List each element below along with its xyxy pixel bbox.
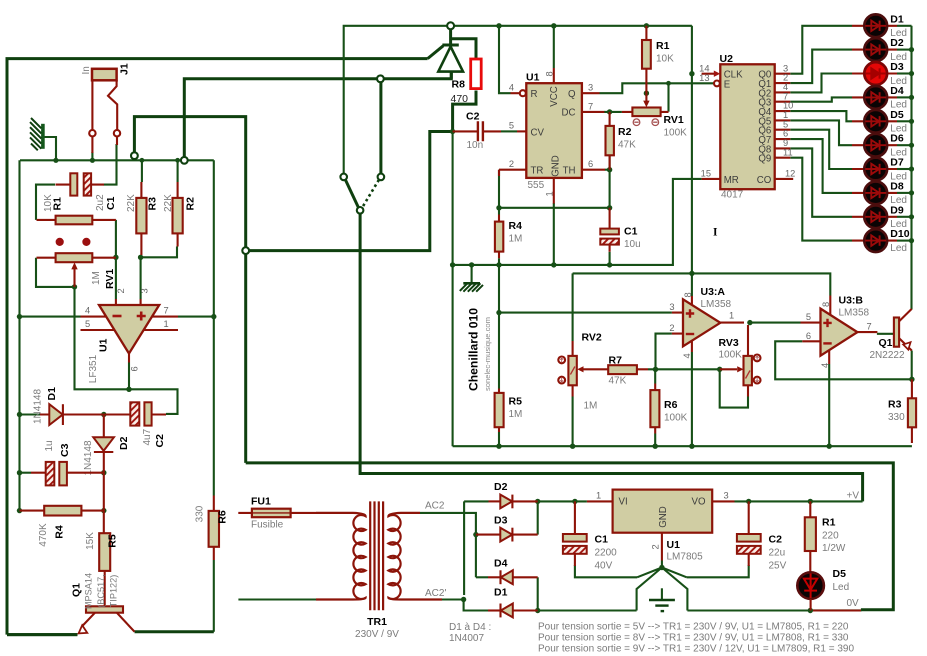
resistor R1 220 1/2W — [805, 501, 816, 571]
svg-text:RV2: RV2 — [582, 332, 602, 344]
wire: raw DC rail to VI — [538, 500, 587, 502]
svg-text:14: 14 — [699, 64, 709, 74]
capacitor C1 2u2 — [56, 173, 105, 195]
wire: ground bus y=446 — [453, 445, 912, 447]
resistor R6 100K — [650, 384, 659, 434]
node: junction ring bus x=184 — [181, 157, 188, 164]
svg-text:R2: R2 — [618, 126, 632, 138]
wire: wiper line RV2-R7-RV3 — [648, 368, 720, 370]
wire: 555 VCC pin8 link — [553, 26, 555, 68]
svg-text:555: 555 — [528, 180, 545, 191]
svg-text:470: 470 — [451, 93, 469, 105]
label R1 220 value — [822, 531, 846, 555]
svg-text:15: 15 — [701, 169, 711, 179]
svg-text:1N4007: 1N4007 — [449, 633, 484, 644]
svg-text:Pour tension sortie = 9V --> T: Pour tension sortie = 9V --> TR1 = 230V … — [538, 644, 854, 655]
wire: J1 tip to C1 right elbow — [104, 144, 117, 185]
wire: D4 anode drop — [537, 577, 539, 610]
LED D6 — [852, 134, 912, 157]
svg-text:sonelec-musique.com: sonelec-musique.com — [483, 317, 492, 391]
regulator U1 LM7805 — [587, 490, 735, 561]
svg-text:D6: D6 — [890, 133, 904, 145]
svg-text:R8: R8 — [452, 79, 466, 91]
svg-text:In: In — [81, 66, 92, 74]
svg-text:C2: C2 — [466, 111, 480, 123]
resistor R8 (highlighted red) — [471, 59, 482, 89]
svg-text:1N4148: 1N4148 — [83, 440, 94, 475]
svg-text:330: 330 — [195, 505, 206, 522]
svg-text:1M: 1M — [91, 271, 102, 285]
wire: ground symbol stub mid — [471, 265, 473, 283]
svg-text:7: 7 — [588, 101, 593, 111]
svg-text:GND: GND — [658, 506, 669, 528]
svg-text:D10: D10 — [890, 228, 909, 240]
svg-text:8: 8 — [821, 302, 831, 307]
diode D3 1N4007 (bridge) — [476, 528, 538, 542]
capacitor C3 1u — [31, 462, 104, 486]
svg-text:R4: R4 — [54, 525, 66, 539]
svg-text:D5: D5 — [890, 109, 904, 121]
svg-text:C2: C2 — [769, 534, 783, 546]
resistor R2 22K — [173, 182, 183, 247]
svg-text:100K: 100K — [664, 128, 688, 139]
node: junction ring x=246 y=250.5 — [242, 247, 249, 254]
potentiometer RV3 100K (wiper arrow from left) — [720, 325, 761, 397]
resistor R1 10K — [37, 216, 116, 225]
svg-text:Q1: Q1 — [879, 337, 893, 349]
svg-text:1M: 1M — [509, 409, 523, 420]
svg-text:4u7: 4u7 — [142, 428, 153, 445]
svg-text:47K: 47K — [618, 140, 636, 151]
wire: U3:A out to U3:B pin5 — [750, 322, 801, 324]
svg-text:U1: U1 — [98, 338, 110, 352]
svg-text:40V: 40V — [595, 561, 613, 572]
svg-text:1: 1 — [729, 311, 734, 321]
svg-text:2u2: 2u2 — [95, 194, 106, 211]
svg-text:1M: 1M — [509, 234, 523, 245]
SCR/diode sensor symbol (green drawn) — [438, 29, 463, 79]
LED D5 chaser — [852, 110, 912, 133]
capacitor C2 4u7 — [104, 402, 166, 425]
node: junction ring bus x=134 — [131, 152, 138, 159]
svg-text:I: I — [713, 227, 718, 239]
junction dots: analog mid section — [496, 271, 914, 382]
junction dots: LED bus — [909, 47, 914, 243]
connector J1 (jack) — [89, 69, 120, 153]
potentiometer RV1 100K — [622, 93, 669, 125]
pin numbers U3:B — [806, 302, 872, 368]
svg-text:4: 4 — [820, 363, 830, 368]
svg-text:22K: 22K — [163, 194, 174, 212]
wire: 4017 Q9 to D10 — [790, 158, 852, 241]
node: junction ring on ground bus at x=184 — [377, 75, 384, 82]
wire: 4017 Q3 to D4 — [790, 97, 852, 101]
svg-text:8: 8 — [545, 71, 555, 76]
wire: AC2 secondary top — [420, 513, 476, 535]
svg-text:D2: D2 — [890, 37, 904, 49]
svg-text:VI: VI — [619, 497, 628, 508]
svg-text:AC2': AC2' — [425, 588, 446, 599]
svg-text:1u: 1u — [44, 440, 55, 451]
diode D1 1N4148 — [40, 404, 104, 425]
wire: Q1 collector riser to LED bus — [910, 241, 912, 310]
svg-text:3: 3 — [139, 288, 149, 293]
wire: R3/R2 bottom tie — [141, 247, 177, 258]
svg-text:Fusible: Fusible — [251, 520, 284, 531]
svg-text:25V: 25V — [769, 561, 787, 572]
wire: SCR cathode to R8 top — [451, 39, 476, 59]
svg-text:330: 330 — [888, 412, 905, 423]
op-amp U1 LF351 (pointing down) — [81, 299, 179, 363]
svg-text:230V / 9V: 230V / 9V — [355, 629, 399, 640]
wire: U3:B pin4 to ground — [828, 364, 830, 446]
junction dots: input bus y=160 — [53, 158, 180, 163]
label U2 pin names — [724, 70, 772, 186]
wire: AC2' secondary bottom — [442, 600, 488, 611]
svg-text:AC2: AC2 — [425, 501, 445, 512]
wire: C1 2200 bottom elbow — [575, 565, 637, 577]
wire: +V artery x=692 (CLK, U3 supply) — [573, 26, 831, 296]
wire: +5V rail VO — [735, 500, 863, 502]
svg-text:3: 3 — [724, 491, 729, 501]
wire: R3 22K top stub green — [141, 160, 143, 182]
diode D4 1N4007 (bridge, pointing left) — [488, 570, 538, 584]
junction dots: R8/C2 ground node, bus taps — [450, 129, 612, 268]
wire: VCC bus y=25.8 — [344, 26, 692, 174]
svg-text:U1: U1 — [526, 72, 540, 84]
svg-text:10K: 10K — [43, 194, 54, 212]
wire: R8 ground column x=452.6 — [452, 132, 454, 447]
potentiometer RV1 1M — [37, 238, 116, 287]
svg-text:D1: D1 — [46, 387, 58, 401]
capacitor C2 22u/25V — [737, 501, 761, 566]
label bridge note D1 à D4 : 1N4007 — [449, 622, 491, 644]
label U1 regulator pin names — [619, 497, 706, 528]
junction dots: diode pump nodes — [17, 387, 132, 514]
svg-text:2N2222: 2N2222 — [870, 350, 905, 361]
svg-text:R6: R6 — [664, 399, 678, 411]
svg-text:MPSA14: MPSA14 — [84, 573, 94, 609]
wire: U3:B out to Q1 base — [877, 333, 894, 335]
switch SW (power, jack DPDT view) — [340, 174, 384, 214]
svg-text:TH: TH — [563, 166, 576, 177]
svg-text:LM358: LM358 — [701, 299, 732, 310]
wire: ground vertical x=245.5 (circle to 0V rail) — [244, 254, 247, 463]
svg-text:6: 6 — [129, 366, 139, 371]
wire: 555 reset pin4 link — [499, 26, 511, 93]
svg-text:5: 5 — [509, 121, 514, 131]
junction dots: 555 area — [496, 71, 694, 211]
wire: Q1 MPSA14 collector run — [135, 630, 214, 633]
junction dots: power section — [461, 499, 813, 614]
wire: RV3 bottom loop — [720, 369, 748, 407]
svg-text:2: 2 — [669, 323, 674, 333]
resistor R4 1M — [495, 215, 503, 259]
resistor R3 330 — [908, 379, 916, 443]
wire: RV1 1M left loop — [36, 258, 75, 287]
wire: pin6 green drop — [128, 363, 130, 390]
svg-text:2: 2 — [509, 159, 514, 169]
svg-text:15K: 15K — [85, 532, 96, 550]
IC U1 555 — [499, 68, 605, 204]
wire: D4 cathode green — [476, 576, 488, 578]
svg-text:R3: R3 — [147, 197, 159, 211]
wire: 4017 Q6 to D7 — [790, 130, 852, 169]
wire: RV1 right terminal riser — [667, 83, 669, 111]
svg-text:R4: R4 — [509, 220, 523, 232]
svg-text:100K: 100K — [719, 350, 743, 361]
svg-text:LF351: LF351 — [88, 354, 99, 383]
svg-text:U3:A: U3:A — [701, 286, 726, 298]
wire: logic ground bus y=265 with riser to U2 MR — [453, 179, 702, 265]
diode D2 1N4148 (pointing down) — [93, 415, 114, 473]
svg-text:Pour tension sortie = 5V --> T: Pour tension sortie = 5V --> TR1 = 230V … — [538, 622, 849, 633]
resistor R6 330 — [209, 496, 219, 561]
svg-text:D4: D4 — [494, 558, 508, 570]
wire: ground link y=250.5 to R8/C2 node — [249, 91, 476, 251]
wire: R1 10K right elbow to pin2 — [115, 220, 117, 299]
wire: D3 cathode riser — [537, 501, 539, 534]
LED D8 — [852, 182, 912, 205]
resistor R7 47K (with wiper arrow to RV2) — [577, 365, 648, 374]
wire: 0V run left of D5 — [538, 609, 811, 611]
LED D4 — [852, 86, 912, 109]
svg-text:8: 8 — [683, 292, 693, 297]
wire: R6 100K stubs — [654, 369, 656, 446]
ground symbol (input, hatched bar) — [30, 118, 43, 150]
wire: pin3 column green — [140, 257, 142, 299]
svg-text:1/2W: 1/2W — [822, 543, 846, 554]
svg-text:10u: 10u — [624, 239, 641, 250]
wire: U3:A pin3 line y=312.6 — [499, 312, 672, 314]
ground symbol (555 section, hatched bar) — [460, 283, 483, 291]
svg-text:22u: 22u — [769, 548, 786, 559]
wire: TH column x=609.6 — [605, 155, 610, 208]
wire: D1 anode green — [20, 413, 41, 415]
wire: RV2 bottom to ground bus — [572, 397, 574, 447]
svg-text:D7: D7 — [890, 157, 904, 169]
svg-text:Chenillard 010: Chenillard 010 — [469, 308, 481, 391]
svg-text:12: 12 — [785, 169, 795, 179]
svg-text:R7: R7 — [609, 355, 623, 367]
wire: R2 22K top stub green — [177, 160, 179, 182]
wire: 4017 Q5 to D6 — [790, 120, 852, 145]
transformer TR1 — [316, 501, 442, 610]
wire: 4017 Q7 to D8 — [790, 139, 852, 193]
svg-text:C1: C1 — [105, 196, 117, 210]
svg-text:U1: U1 — [667, 539, 681, 551]
wire: +V rail y=473.5 from switch common — [360, 214, 862, 502]
svg-text:1: 1 — [545, 191, 555, 196]
svg-text:2: 2 — [651, 544, 661, 549]
svg-text:C1: C1 — [595, 534, 609, 546]
capacitor C2 10n — [453, 121, 527, 141]
svg-text:3: 3 — [669, 302, 674, 312]
wire: LED cathode bus — [910, 26, 912, 241]
svg-text:MR: MR — [724, 175, 739, 186]
label C1 2200 value — [595, 548, 618, 572]
wire: 0V rail (bottom frame) — [246, 463, 894, 611]
svg-text:Led: Led — [833, 582, 850, 593]
resistor R1 10K (555 timing) — [642, 26, 651, 93]
LED D5 — [797, 572, 824, 610]
node: SCR cathode ring on VCC bus — [447, 22, 454, 29]
svg-text:Pour tension sortie = 8V --> T: Pour tension sortie = 8V --> TR1 = 230V … — [538, 633, 849, 644]
svg-text:TIP122): TIP122) — [109, 575, 119, 608]
wire: 555 GND column — [553, 203, 555, 265]
wire: U3:B pin6 feedback to emitter node — [775, 341, 912, 379]
diode D1 1N4007 (bridge, pointing left) — [488, 604, 538, 618]
capacitor C1 2200/40V — [563, 501, 587, 566]
svg-text:D5: D5 — [833, 568, 847, 580]
wire: ground junction x=135 riser to y=116.5 — [134, 117, 245, 247]
svg-text:U3:B: U3:B — [839, 295, 864, 307]
LED D3 (lit) — [852, 62, 912, 85]
junction dots: ground bus y=446 — [496, 444, 832, 449]
svg-text:4: 4 — [85, 306, 90, 316]
pin numbers U1 LF351 — [85, 288, 169, 371]
svg-text:13: 13 — [699, 73, 709, 83]
svg-text:E: E — [724, 79, 731, 90]
LED D10 — [852, 229, 912, 252]
svg-text:LM7805: LM7805 — [667, 552, 704, 563]
potentiometer RV2 1M — [558, 341, 577, 397]
wire: op-amp U1 output node y=389.3 — [75, 287, 178, 414]
svg-text:47K: 47K — [609, 376, 627, 387]
wire: bridge D3-D4 column — [475, 535, 477, 578]
svg-text:10K: 10K — [656, 54, 674, 65]
wire: left/top ground border (SCR gate net, Q1 emitter) — [7, 46, 443, 635]
IC U2 4017 — [702, 64, 794, 189]
svg-text:DC: DC — [562, 108, 576, 119]
svg-text:D9: D9 — [890, 204, 904, 216]
svg-text:11: 11 — [783, 147, 793, 157]
svg-text:CO: CO — [757, 175, 772, 186]
wire: 4017 Q1 to D2 — [790, 50, 852, 84]
svg-text:D1: D1 — [494, 587, 508, 599]
svg-text:D2: D2 — [494, 481, 508, 493]
svg-text:3: 3 — [588, 83, 593, 93]
svg-text:TR: TR — [531, 166, 544, 177]
svg-text:Q: Q — [568, 89, 576, 100]
svg-text:VCC: VCC — [549, 86, 560, 106]
svg-text:D8: D8 — [890, 180, 904, 192]
svg-text:5: 5 — [806, 312, 811, 322]
svg-text:4017: 4017 — [721, 190, 744, 201]
svg-text:4: 4 — [682, 353, 692, 358]
wire: Q1 emitter to R3 node — [911, 351, 913, 380]
wire: 555 output to 4017 E — [600, 83, 715, 93]
svg-text:6: 6 — [588, 159, 593, 169]
wire: RV2 top riser — [572, 273, 574, 341]
svg-text:D4: D4 — [890, 85, 904, 97]
resistor R5 15K — [99, 473, 110, 607]
wire: 4017 Q0 to D1 — [790, 26, 852, 74]
wire: ground symbol stub top-left — [44, 137, 56, 160]
svg-text:D3: D3 — [890, 61, 904, 73]
wire: switch right contact riser — [379, 82, 382, 173]
svg-text:GND: GND — [551, 155, 562, 177]
svg-text:22K: 22K — [126, 194, 137, 212]
svg-text:1M: 1M — [584, 401, 598, 412]
svg-text:D1 à D4 :: D1 à D4 : — [449, 622, 491, 633]
svg-text:TR1: TR1 — [367, 616, 387, 628]
diode D2 1N4007 (bridge) — [489, 495, 538, 509]
wire: C1 2u2 left elbow — [36, 185, 55, 220]
wire: U3:A pin4 to ground — [691, 352, 693, 446]
op-amp U3:A LM358 — [672, 296, 744, 352]
svg-text:1: 1 — [596, 491, 601, 501]
junction dots: input analog nodes — [17, 255, 217, 320]
svg-text:1N4148: 1N4148 — [33, 389, 44, 424]
svg-text:C1: C1 — [624, 226, 638, 238]
svg-text:4: 4 — [509, 83, 514, 93]
svg-text:470K: 470K — [38, 523, 49, 547]
svg-text:LM358: LM358 — [839, 308, 870, 319]
wire: input ground bus y=160 — [20, 159, 214, 161]
transistor Q1 2N2222 — [894, 309, 912, 351]
wire: op-amp U1 pin7 to R6 330 column — [178, 160, 214, 631]
wire: inverting rail x=20 (bus to R4 470K) — [18, 160, 20, 510]
wire: 0V red terminal segment — [810, 609, 861, 611]
svg-text:R6: R6 — [217, 510, 229, 524]
wire: TR1 primary bottom lead — [238, 598, 316, 600]
LED D1 — [852, 14, 912, 37]
svg-text:5: 5 — [85, 319, 90, 329]
svg-text:10n: 10n — [467, 140, 484, 151]
svg-text:7: 7 — [867, 322, 872, 332]
svg-text:Q9: Q9 — [758, 154, 771, 165]
svg-text:RV1: RV1 — [664, 114, 684, 126]
svg-text:RV3: RV3 — [719, 337, 739, 349]
wire: 4017 Q4 to D5 — [790, 111, 852, 121]
pin numbers U2 4017 — [699, 63, 795, 178]
svg-text:D2: D2 — [118, 436, 130, 450]
wire: regulator ground star — [637, 561, 688, 611]
wire: 555 DC to RV1 — [604, 111, 622, 113]
wire: U3:A pin2 feedback — [656, 334, 672, 370]
svg-text:2200: 2200 — [595, 548, 618, 559]
junction dots: VCC bus — [496, 23, 649, 28]
svg-text:R: R — [531, 89, 538, 100]
svg-text:R1: R1 — [656, 40, 670, 52]
wire: 4017 Q8 to D9 — [790, 148, 852, 216]
wire: R4 1M stubs green — [498, 208, 500, 265]
svg-text:R5: R5 — [107, 534, 119, 548]
LED D9 — [852, 205, 912, 228]
svg-text:+V: +V — [847, 491, 860, 502]
wire: C3 left green — [20, 472, 32, 474]
op-amp U3:B LM358 — [801, 296, 878, 365]
svg-text:220: 220 — [822, 531, 839, 542]
label Q1 value MPSA14 (BC517, TIP122) — [84, 573, 119, 609]
svg-text:6: 6 — [806, 331, 811, 341]
wire: R5 1M column x=499 — [498, 265, 500, 446]
svg-text:0V: 0V — [847, 598, 860, 609]
svg-text:1: 1 — [164, 319, 169, 329]
svg-text:R5: R5 — [509, 396, 523, 408]
fuse FU1 — [238, 509, 316, 518]
svg-text:2: 2 — [116, 288, 126, 293]
LED D7 — [852, 158, 912, 181]
svg-text:R2: R2 — [185, 197, 197, 211]
wire: Q1 MPSA14 emitter run — [7, 633, 77, 636]
wire: ground branch y=79 to SCR anode — [184, 72, 451, 161]
svg-text:FU1: FU1 — [251, 496, 271, 508]
resistor R5 1M — [495, 389, 504, 433]
wire: D2 anode green — [464, 501, 488, 595]
svg-text:100K: 100K — [664, 413, 688, 424]
